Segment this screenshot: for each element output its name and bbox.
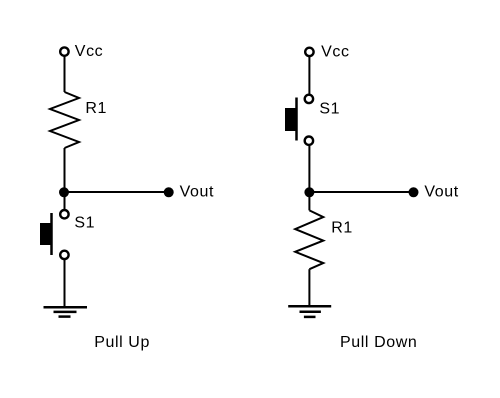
svg-text:Vout: Vout [424,183,458,200]
svg-text:R1: R1 [85,100,107,117]
svg-text:Pull Down: Pull Down [340,334,417,351]
svg-text:Vcc: Vcc [321,43,349,60]
svg-text:Pull Up: Pull Up [94,334,150,351]
svg-text:Vout: Vout [180,184,214,201]
svg-text:Vcc: Vcc [75,43,103,60]
svg-text:R1: R1 [331,220,353,237]
svg-text:S1: S1 [74,215,95,232]
svg-text:S1: S1 [319,100,340,117]
